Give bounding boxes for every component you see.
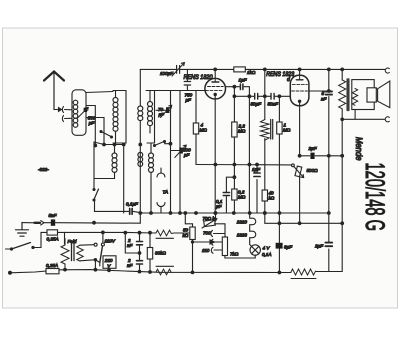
trimmer 500pF arrow [77,107,88,118]
rail x249 [248,96,250,213]
main rail x140 from top bus [139,69,141,106]
heater zigzag top [156,230,190,236]
svg-text:5: 5 [322,91,325,96]
oscillator winding L3 [148,102,153,126]
antenna coil winding L1 [73,100,78,127]
antenna coil form [72,90,86,136]
tuning cap 500pF arrow [175,145,187,158]
svg-text:MΩ: MΩ [238,129,246,134]
svg-text:0,1µF: 0,1µF [126,202,139,207]
cap 2nF a [139,233,141,272]
transformer core2 [72,244,75,261]
speaker terminal wire 2 [342,110,385,120]
svg-text:50nF: 50nF [268,102,280,107]
svg-text:0,25A: 0,25A [47,237,59,242]
rail x234.4 [233,87,235,213]
svg-text:1823: 1823 [237,233,248,238]
tube V1 RENS1820 [205,78,226,99]
svg-text:220: 220 [104,258,113,263]
IF choke [264,69,266,119]
svg-text:-322-: -322- [38,167,49,172]
tube V2 RENS1823 [290,75,309,105]
transformer core [347,79,349,111]
resistor 1k on H1 [234,67,246,72]
wire winding L3 ends [149,91,151,134]
fuse2 0.25A [46,269,59,274]
svg-text:d: d [287,77,290,83]
transformer winding S (field) [77,245,83,261]
label 220V box [103,256,116,268]
resistor 50k [185,213,192,272]
node dot [94,144,97,147]
wire 70pF to rail [156,109,171,111]
lower winding L4 [112,153,117,172]
trimmer 100pF plates [177,66,180,74]
bus B y222.5 [45,222,141,225]
svg-text:7kΩ: 7kΩ [230,252,239,257]
coupling cap 50uuF [255,94,258,100]
plug arrow heater [206,240,215,244]
selector wire bottom [80,260,94,261]
svg-text:1kΩ: 1kΩ [247,70,256,75]
svg-text:MΩ: MΩ [238,195,246,200]
wire ground to plug [22,222,35,224]
svg-text:MΩ: MΩ [200,128,208,133]
svg-text:100µF: 100µF [160,71,174,76]
cap 2nF b [137,261,143,264]
switch S2 [154,145,156,147]
resistor 0.2M [232,189,237,200]
selector feed vertical [65,232,103,243]
transformer secondary box [352,80,374,110]
speaker cone [376,81,390,108]
lower winding L6 [149,153,154,172]
svg-text:1µF: 1µF [252,167,261,172]
speaker terminal hook bottom [385,117,389,122]
svg-text:50: 50 [183,228,189,233]
svg-text:kΩ: kΩ [269,196,275,201]
speaker terminal hook top [385,68,389,73]
resistor 1M rail [278,96,280,272]
oscillator coil form [146,91,155,144]
wire band wires [94,142,124,145]
transformer winding P [61,239,69,270]
svg-text:30kΩ: 30kΩ [155,251,166,256]
secondary winding [352,89,357,106]
selector lever [100,246,103,263]
antenna lead wire [54,109,57,111]
wire L6 [150,144,152,213]
resistor 40k [262,190,267,201]
dial lamp [250,245,260,255]
earth jack [62,116,72,122]
svg-text:2µF: 2µF [314,244,324,249]
antenna [44,72,64,110]
svg-text:1820: 1820 [237,220,248,225]
bus A y213 [140,212,328,214]
rail x180 [179,91,181,214]
variable cap 70pF block [166,107,169,113]
wire winding L2 ends [115,91,117,144]
trimmer 100pF arrow [172,63,185,77]
cathode bypass 0.1uF [226,177,234,213]
wire selector bottom to 220V [95,260,99,270]
resistor 7k tapped [222,237,227,256]
grid wire y90.5 to tube [155,90,207,92]
switch S1 [100,131,102,133]
wire jack to coil [65,109,73,111]
coupling cap 50nF [271,94,274,100]
resistor 2.2M [232,122,237,137]
trimmer 500pF block [84,108,88,112]
svg-text:500Ω: 500Ω [307,168,319,173]
wire form top to L2 [86,92,113,93]
resistor 30k [149,233,151,272]
svg-text:700: 700 [203,231,211,236]
output line 2uF [300,155,343,157]
antenna plug [57,108,62,112]
svg-text:TA: TA [163,190,169,195]
svg-text:110: 110 [202,248,210,253]
svg-text:50µF: 50µF [251,102,263,107]
screen line with cap [225,87,249,97]
svg-text:70Ω b: 70Ω b [203,216,216,221]
svg-text:Feld: Feld [68,239,77,244]
tuning cap 500pF block [179,148,183,154]
bottom right rails [329,213,342,272]
wiper line y164.5 [196,164,292,166]
rail x170.5 [170,91,172,214]
cap 2uF [310,153,314,159]
wire L4 [94,145,115,179]
pot 500 [295,166,302,177]
cap 1uF [256,165,258,214]
mains plug [35,222,41,224]
TA jack lower [157,203,165,207]
cap 5nF mains [51,219,55,225]
pot 70 hum [215,213,217,219]
svg-text:5nF: 5nF [49,213,58,218]
cap 750pF [186,69,188,90]
heater line y233 [103,231,156,234]
selector stub [125,233,139,253]
mains switch [6,248,12,250]
svg-text:0,1A: 0,1A [262,252,271,257]
field resistor zigzag [291,269,329,275]
series loops on rail [138,106,143,111]
svg-text:8µF: 8µF [284,245,293,250]
top bus H1 [140,68,385,70]
cap 8uF [276,243,283,249]
wire coil to mid section upper [86,106,95,146]
antenna jack [62,107,63,113]
cap 2uF bottom [325,243,332,247]
svg-text:4 V: 4 V [263,246,271,251]
ground [16,223,29,237]
switch S3 [93,142,95,189]
70pF arrow [161,105,172,117]
svg-text:Mende: Mende [354,137,364,161]
svg-text:2µF: 2µF [308,146,318,151]
svg-text:0,25A: 0,25A [46,263,58,268]
bus H3 y272 [10,270,292,273]
svg-text:kΩ: kΩ [183,233,189,238]
cap 5nF anode [328,69,330,213]
resistor 4M [193,123,198,134]
svg-text:1µF: 1µF [239,78,248,83]
wire bus link right [265,213,342,223]
speaker driver [367,88,376,102]
lower winding L5 [138,152,143,166]
mid coil form [113,91,126,144]
selector wire top [80,244,94,247]
mid coil winding L2 [113,98,118,132]
TA jack upper [157,173,165,177]
fuse 0.25A [47,230,58,235]
svg-text:RENS 1823: RENS 1823 [266,71,294,78]
svg-text:110V: 110V [105,239,116,244]
rail x123.7 down [123,145,125,214]
speaker transformer primary [341,69,343,80]
heater zigzag bottom [156,269,171,275]
wire coil second tap [86,118,104,145]
grid2 wire y96.3 [234,95,290,97]
svg-text:MΩ: MΩ [283,128,291,133]
svg-text:120/148 G: 120/148 G [360,163,390,232]
